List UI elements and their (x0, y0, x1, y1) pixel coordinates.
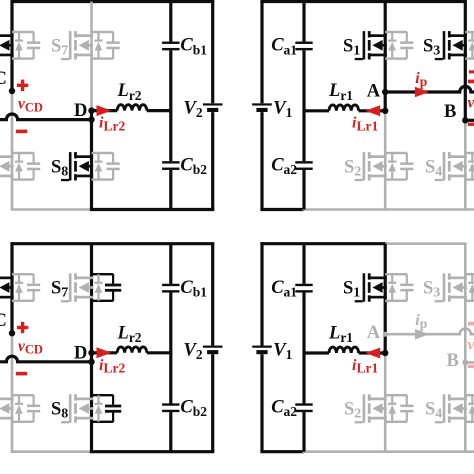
svg-text:D: D (74, 101, 87, 121)
svg-text:S4: S4 (425, 157, 442, 179)
svg-text:S3: S3 (423, 36, 440, 58)
svg-text:Lr1: Lr1 (328, 323, 353, 345)
svg-text:Lr2: Lr2 (117, 81, 142, 103)
svg-text:S2: S2 (344, 400, 361, 422)
svg-text:S3: S3 (423, 279, 440, 301)
svg-text:Ca1: Ca1 (271, 36, 297, 58)
svg-text:Cb1: Cb1 (180, 36, 207, 58)
svg-text:S8: S8 (51, 157, 68, 179)
svg-text:ip: ip (415, 70, 427, 89)
svg-text:D: D (74, 343, 87, 363)
svg-text:iLr1: iLr1 (352, 115, 378, 134)
svg-text:Cb2: Cb2 (180, 397, 207, 419)
svg-text:ip: ip (415, 312, 427, 331)
svg-text:S8: S8 (51, 400, 68, 422)
svg-text:C: C (0, 69, 7, 89)
svg-text:Ca2: Ca2 (271, 155, 297, 177)
svg-text:V1: V1 (273, 341, 292, 363)
svg-text:V2: V2 (184, 98, 203, 120)
svg-text:B: B (444, 102, 456, 122)
svg-text:A: A (367, 82, 381, 102)
svg-text:S4: S4 (425, 400, 442, 422)
svg-text:V1: V1 (273, 98, 292, 120)
svg-text:v: v (468, 95, 474, 112)
svg-text:S1: S1 (343, 279, 360, 301)
svg-text:Cb2: Cb2 (180, 155, 207, 177)
svg-text:S7: S7 (51, 36, 68, 58)
svg-text:iLr2: iLr2 (99, 115, 125, 134)
svg-text:vCD: vCD (18, 96, 43, 115)
svg-text:iLr1: iLr1 (352, 357, 378, 376)
svg-text:B: B (447, 351, 459, 371)
svg-text:iLr2: iLr2 (99, 357, 125, 376)
svg-text:V2: V2 (184, 341, 203, 363)
svg-text:C: C (0, 311, 7, 331)
svg-text:v: v (468, 337, 474, 354)
svg-text:S7: S7 (51, 279, 68, 301)
svg-text:A: A (367, 323, 381, 343)
svg-text:S2: S2 (344, 157, 361, 179)
svg-text:Lr1: Lr1 (328, 81, 353, 103)
svg-text:vCD: vCD (18, 338, 43, 357)
svg-text:S1: S1 (343, 36, 360, 58)
svg-text:Lr2: Lr2 (117, 323, 142, 345)
svg-text:Cb1: Cb1 (180, 278, 207, 300)
svg-text:Ca2: Ca2 (271, 397, 297, 419)
svg-text:Ca1: Ca1 (271, 278, 297, 300)
